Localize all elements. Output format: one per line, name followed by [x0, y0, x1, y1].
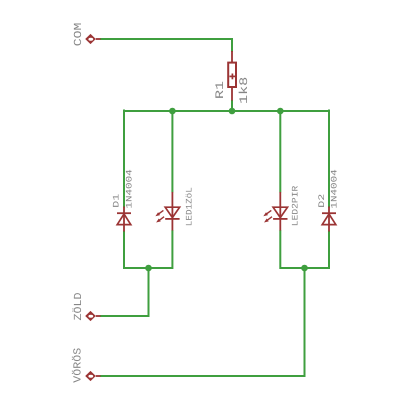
- wire bus horizontal: [124, 110, 329, 112]
- junction bus-LED2: [277, 108, 284, 115]
- svg-text:D2: D2: [317, 194, 327, 208]
- wire D2 branch upper: [328, 110, 330, 208]
- svg-text:D1: D1: [112, 194, 122, 208]
- wire COM horizontal + down to R1: [100, 39, 232, 52]
- wire LED1 branch upper: [171, 111, 173, 192]
- svg-text:VÖRÖS: VÖRÖS: [72, 348, 85, 383]
- wire LED1 branch lower: [171, 230, 173, 269]
- wire D2 branch lower: [328, 231, 330, 269]
- svg-text:1N4004: 1N4004: [329, 169, 339, 208]
- svg-text:COM: COM: [73, 23, 85, 47]
- diode D1: [117, 207, 131, 232]
- pin VOROS: [85, 371, 100, 381]
- led LED2: [263, 192, 287, 231]
- wire LED2 branch upper: [279, 111, 281, 192]
- wire R1 bottom to bus: [231, 100, 233, 111]
- junction bottom-ZOLD: [145, 265, 152, 272]
- svg-text:LED1ZöL: LED1ZöL: [184, 187, 194, 226]
- junction bus-LED1: [169, 108, 176, 115]
- svg-text:ZÖLD: ZÖLD: [72, 293, 85, 321]
- wire bottom left bar: [124, 267, 172, 269]
- wire D1 branch upper: [123, 110, 125, 208]
- led LED1: [155, 192, 179, 231]
- diode D2: [322, 207, 336, 232]
- junction bottom-VOROS: [301, 265, 308, 272]
- junction bus-R1: [229, 108, 236, 115]
- pin COM: [85, 34, 100, 44]
- svg-text:1k8: 1k8: [238, 77, 251, 104]
- wire VOROS riser and horizontal: [100, 268, 305, 376]
- wire D1 branch lower: [123, 231, 125, 269]
- wire ZOLD riser and horizontal: [100, 268, 149, 316]
- wire bottom right bar: [280, 267, 329, 269]
- svg-text:R1: R1: [214, 81, 227, 99]
- pin ZOLD: [85, 311, 100, 321]
- resistor R1: [228, 51, 236, 101]
- svg-text:LED2PIR: LED2PIR: [290, 186, 300, 227]
- svg-text:1N4004: 1N4004: [125, 169, 135, 208]
- wire LED2 branch lower: [279, 230, 281, 269]
